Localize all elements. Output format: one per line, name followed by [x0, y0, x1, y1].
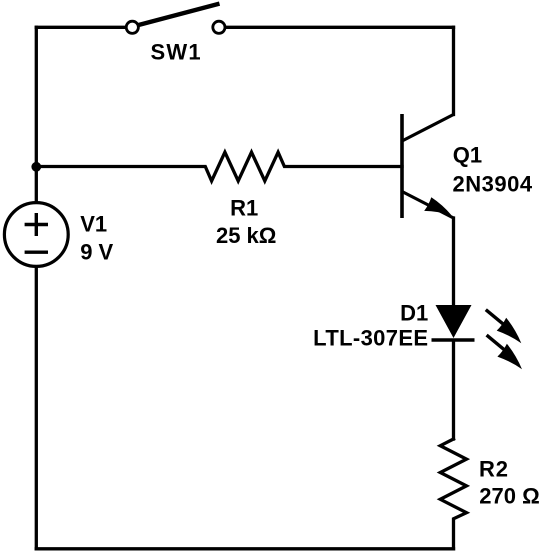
- wire LED cathode to R2: [452, 341, 455, 439]
- V1 circle: [4, 203, 68, 267]
- svg-text:SW1: SW1: [151, 40, 202, 65]
- D1 cathode bar: [432, 338, 475, 342]
- V1 plus sign: [25, 213, 48, 236]
- svg-text:25 kΩ: 25 kΩ: [216, 223, 276, 248]
- wire top-left horizontal: [36, 26, 126, 29]
- Q1 emitter diagonal: [402, 192, 454, 219]
- LED D1: [313, 300, 522, 369]
- resistor R1 labels: [216, 196, 276, 249]
- svg-text:R1: R1: [230, 196, 258, 221]
- wire emitter vertical to LED: [452, 218, 455, 305]
- resistor R2 labels: [479, 457, 540, 509]
- svg-text:LTL-307EE: LTL-307EE: [313, 325, 428, 350]
- wire right vertical collector: [452, 27, 455, 114]
- Q1 emitter arrowhead: [424, 197, 451, 215]
- Q1 base bar: [400, 114, 404, 218]
- wire base with resistor R1 zigzag: [36, 152, 402, 181]
- D1 light arrow 1 shaft: [486, 310, 505, 326]
- D1 light arrow 1 head: [497, 318, 522, 344]
- transistor Q1: [402, 114, 533, 218]
- svg-text:270 Ω: 270 Ω: [479, 483, 539, 508]
- V1 minus sign: [25, 250, 48, 253]
- D1 light arrow 2 head: [497, 344, 522, 370]
- switch SW1 right contact: [213, 21, 225, 33]
- wire left vertical (top section): [35, 27, 38, 203]
- svg-text:2N3904: 2N3904: [453, 171, 533, 196]
- switch SW1 left contact: [126, 21, 138, 33]
- svg-text:D1: D1: [400, 300, 428, 325]
- svg-text:V1: V1: [80, 212, 107, 237]
- wire bottom horizontal: [36, 547, 453, 550]
- svg-text:Q1: Q1: [453, 143, 482, 168]
- resistor R2 zigzag: [440, 439, 466, 549]
- Q1 collector diagonal: [402, 115, 454, 142]
- svg-text:R2: R2: [479, 457, 509, 482]
- D1 light arrow 2 shaft: [487, 335, 506, 351]
- wire left vertical (bottom section): [35, 266, 38, 549]
- node junction dot: [31, 162, 41, 172]
- voltage source V1: [4, 203, 113, 267]
- D1 triangle: [436, 305, 472, 338]
- switch SW1 lever: [138, 4, 220, 26]
- svg-text:9 V: 9 V: [80, 240, 113, 265]
- switch SW1: [126, 4, 225, 65]
- wire top-right horizontal: [225, 26, 454, 29]
